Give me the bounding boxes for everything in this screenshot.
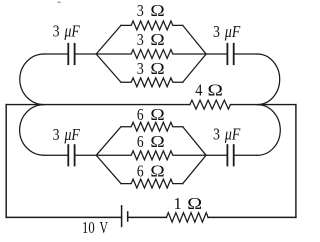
- resistor R4 4 ohm: [190, 100, 231, 109]
- wire middle line right segment: [230, 104, 296, 106]
- label resistor R4 4 ohm: [195, 82, 202, 100]
- svg-text:3: 3: [213, 125, 220, 144]
- label 3 ohm (bottom branch): [137, 60, 144, 78]
- svg-text:1: 1: [174, 194, 182, 213]
- capacitor C1 top-left (3 uF): [68, 44, 74, 64]
- svg-text:4: 4: [195, 82, 202, 100]
- resistor 6 ohm (bottom branch): [121, 179, 183, 188]
- wire diamond right diagonals: [183, 127, 206, 184]
- label 3 ohm (middle branch): [137, 31, 144, 49]
- label battery 10 V: [82, 220, 95, 238]
- svg-text:Ω: Ω: [150, 105, 164, 124]
- wire cap C4 to right arc: [235, 154, 258, 156]
- svg-text:6: 6: [137, 132, 144, 151]
- wire left edge: [5, 105, 7, 218]
- wire bottom loop left horizontal: [44, 154, 67, 156]
- label capacitor C4 3 uF: [213, 125, 220, 144]
- svg-text:Ω: Ω: [150, 1, 164, 20]
- label 6 ohm (middle branch): [137, 132, 144, 151]
- wire cap C3 to node: [76, 154, 97, 156]
- battery V1 long plate: [121, 206, 123, 227]
- wire bottom left segment: [6, 216, 121, 218]
- capacitor C2 top-right (3 uF): [227, 44, 233, 64]
- label capacitor C3 3 uF: [53, 126, 60, 145]
- svg-text:μF: μF: [224, 125, 241, 144]
- resistor R5 1 ohm: [166, 213, 208, 222]
- wire top loop left horizontal: [44, 53, 67, 55]
- node left junction: [96, 122, 206, 188]
- speck artifact top: [58, 2, 61, 3]
- wire diamond right diagonals: [183, 25, 206, 82]
- node left junction: [96, 21, 206, 87]
- label 3 ohm (top branch): [137, 2, 144, 20]
- svg-text:10: 10: [82, 220, 95, 238]
- svg-text:Ω: Ω: [150, 132, 164, 151]
- battery V1 short plate: [127, 212, 129, 221]
- svg-text:μF: μF: [64, 126, 81, 145]
- label capacitor C2 3 uF: [213, 23, 220, 42]
- wire cap C1 to node: [76, 53, 97, 55]
- svg-text:3: 3: [137, 2, 144, 20]
- svg-text:V: V: [99, 219, 108, 238]
- wire battery to 1 ohm: [128, 216, 166, 218]
- svg-text:3: 3: [137, 60, 144, 78]
- svg-text:3: 3: [213, 23, 220, 42]
- svg-text:6: 6: [137, 162, 144, 181]
- svg-text:Ω: Ω: [150, 30, 164, 49]
- wire node to cap C4: [206, 154, 226, 156]
- svg-text:μF: μF: [64, 22, 81, 41]
- wire bottom loop right arc: [257, 105, 280, 156]
- svg-text:3: 3: [53, 23, 60, 42]
- capacitor C3 bottom-left (3 uF): [68, 145, 74, 165]
- resistor 3 ohm (middle branch): [96, 50, 206, 59]
- wire right edge: [295, 105, 297, 218]
- svg-text:3: 3: [137, 31, 144, 49]
- resistor 6 ohm (middle branch): [96, 151, 206, 160]
- label resistor R5 1 ohm: [174, 194, 182, 213]
- wire top loop left arc: [20, 54, 44, 105]
- wire node to cap C2: [206, 53, 226, 55]
- resistor 3 ohm (top branch): [121, 21, 183, 30]
- svg-text:6: 6: [137, 106, 144, 125]
- resistor 6 ohm (top branch): [121, 122, 183, 131]
- svg-text:Ω: Ω: [208, 81, 223, 100]
- wire bottom loop left arc: [20, 105, 44, 156]
- resistor 3 ohm (bottom branch): [121, 78, 183, 87]
- wire diamond left diagonals: [96, 25, 121, 82]
- wire diamond left diagonals: [96, 127, 121, 184]
- wire cap C2 to right arc: [235, 53, 258, 55]
- wire middle line left segment: [6, 104, 190, 106]
- label 6 ohm (bottom branch): [137, 162, 144, 181]
- capacitor C4 bottom-right (3 uF): [227, 145, 233, 165]
- svg-text:μF: μF: [224, 23, 241, 42]
- svg-text:Ω: Ω: [150, 59, 164, 78]
- wire bottom right segment: [208, 216, 296, 218]
- label capacitor C1 3 uF: [53, 23, 60, 42]
- label 6 ohm (top branch): [137, 106, 144, 125]
- svg-text:3: 3: [53, 126, 60, 145]
- svg-text:Ω: Ω: [187, 194, 202, 212]
- svg-text:Ω: Ω: [150, 162, 164, 181]
- wire top loop right arc: [257, 54, 279, 105]
